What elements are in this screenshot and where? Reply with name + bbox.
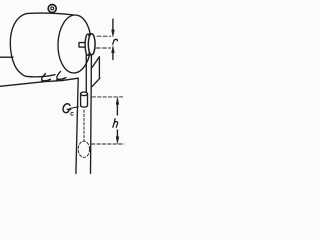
shelf right end back vertical — [98, 57, 100, 78]
shelf right end bottom diagonal — [92, 78, 100, 86]
dashed line at weight bottom level (h dim top) — [92, 96, 123, 98]
ghost (final) position of weight, dashed circle — [78, 141, 89, 157]
drum back rim ellipse — [85, 34, 90, 55]
post right edge — [90, 56, 93, 174]
drum top/bottom lines — [88, 34, 92, 55]
r dimension upper arrow — [112, 19, 114, 30]
label subscript c — [71, 112, 73, 115]
motor body outline M1 — [10, 13, 74, 77]
r dimension lower arrow — [112, 53, 114, 60]
motor foot (left) — [42, 74, 51, 82]
label r (drum radius) — [113, 39, 118, 44]
motor foot (right) — [57, 72, 67, 80]
h dimension lower arrow — [116, 130, 118, 137]
post left edge — [76, 79, 78, 174]
shaft between motor face and drum — [79, 43, 85, 48]
dashed line at drum top level (r dim) — [97, 35, 111, 37]
dashed line at drum axis level (r dim) — [96, 47, 110, 49]
rope from drum down to weight — [85, 54, 87, 93]
h dimension upper arrow — [116, 104, 118, 115]
weight cylinder Gc — [81, 94, 88, 106]
shelf front edge — [0, 78, 78, 86]
dashed drop line below weight — [83, 110, 85, 141]
leader line from G label to weight — [70, 107, 78, 109]
eyebolt ring on motor top — [48, 5, 56, 13]
label h (drop height) — [113, 119, 118, 127]
dashed line at ghost level (h dim bottom) — [92, 143, 125, 145]
drum front face ellipse — [88, 34, 95, 55]
shelf right end top diagonal — [92, 57, 99, 67]
motor end-face ellipse — [57, 14, 92, 73]
label G of weight — [63, 39, 118, 127]
wire shelf back edge line — [1, 56, 14, 58]
